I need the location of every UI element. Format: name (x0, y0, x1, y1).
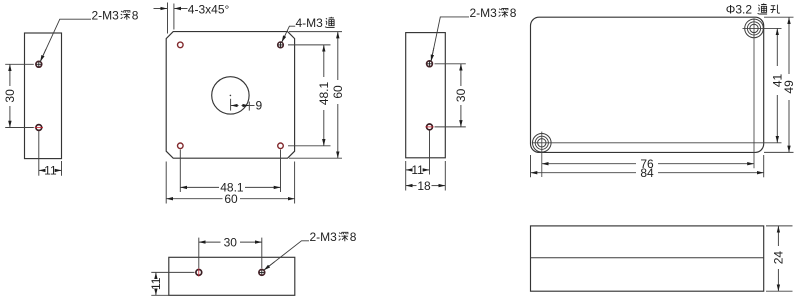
dimension 76 (view4 bottom) (542, 163, 754, 165)
dimension 11 (view1 bottom) (39, 131, 62, 176)
svg-text:30: 30 (224, 235, 238, 249)
dimension 30 (view6 top) (199, 238, 262, 269)
svg-text:60: 60 (331, 85, 345, 99)
svg-text:4-M3: 4-M3 (296, 16, 324, 30)
svg-text:84: 84 (640, 166, 654, 180)
svg-text:11: 11 (411, 163, 424, 177)
dimension 24 (view5 right) (766, 226, 793, 291)
dimension 41 (view4 right) (776, 28, 778, 142)
leader 2-M3 deep 8 (view6) (264, 241, 309, 270)
view6 hole left (M3) (196, 268, 202, 276)
dimension 48.1 (view2 bottom) (180, 150, 280, 193)
centerlines hole bottom-left (532, 132, 782, 177)
dimension 30 (view3 right) (435, 64, 466, 127)
dimension 11 (view3 bottom) (406, 131, 430, 191)
dimension 60 (view2 right) (289, 32, 342, 159)
view2 hole bottom-left (M3) (178, 143, 184, 149)
view6 hole right (M3, crossed) (259, 270, 265, 276)
leader 2-M3 deep 8 (view1) (40, 19, 91, 62)
label phi3.2 through-hole (726, 2, 780, 16)
view6 outline (169, 257, 295, 295)
label 4-M3tong (view2) (296, 16, 335, 30)
view1 plate outline (25, 33, 62, 159)
svg-text:49: 49 (782, 80, 796, 94)
svg-text:30: 30 (3, 89, 17, 103)
label 2-M3shen8 (view1) (92, 8, 139, 22)
view3 plate outline (406, 33, 446, 158)
label 2-M3shen8 (view3) (470, 6, 517, 20)
dimension 18 (view3 bottom) (406, 161, 446, 191)
svg-text:8: 8 (510, 6, 517, 20)
dimension 48.1 (view2 right) (288, 45, 331, 146)
view2 plate outline with chamfered corners (166, 32, 294, 159)
svg-text:9: 9 (256, 99, 263, 113)
view2 hole bottom-right (M3) (278, 143, 284, 149)
view2 hole top-left (M3) (178, 42, 184, 48)
svg-text:24: 24 (772, 251, 786, 265)
label 2-M3shen8 (view6) (310, 230, 357, 244)
dimension 30 (view1 left) (5, 64, 34, 127)
svg-text:18: 18 (417, 179, 431, 193)
view3 hole bottom (M3) (425, 124, 433, 130)
svg-text:30: 30 (454, 88, 468, 102)
leader 4-M3 through (view2) (282, 26, 296, 42)
svg-text:Φ3.2: Φ3.2 (726, 2, 753, 16)
view4 cover outline (rounded) (531, 17, 764, 152)
svg-text:60: 60 (224, 192, 238, 206)
radius dimension 9 (view2 center) (231, 99, 255, 111)
chamfer dimension 4-3x45 (154, 3, 188, 34)
view2 hole top-right (M3, crossed) (278, 42, 284, 48)
svg-text:8: 8 (132, 8, 139, 22)
dimension 11 (view6 left) (151, 272, 194, 295)
svg-text:11: 11 (149, 277, 163, 290)
leader 2-M3 deep 8 (view3) (431, 17, 469, 62)
view2 center bore circle (212, 77, 249, 114)
view5 outline (531, 226, 764, 291)
svg-text:2-M3: 2-M3 (310, 230, 338, 244)
svg-text:4-3x45°: 4-3x45° (188, 2, 230, 16)
view4 hole bottom-left (3.2 through) (533, 134, 552, 153)
view1 hole bottom (M3) (35, 125, 43, 131)
dimension 49 (view4 far right) (764, 17, 794, 152)
svg-text:2-M3: 2-M3 (470, 6, 498, 20)
centerlines hole top-right (743, 18, 782, 168)
view1 hole top (M3, crossed) (36, 61, 42, 67)
view3 hole top (M3, crossed) (427, 61, 433, 67)
view4 hole top-right (3.2 through) (745, 19, 764, 38)
svg-text:2-M3: 2-M3 (92, 8, 120, 22)
view5 step line (531, 257, 764, 259)
svg-text:11: 11 (44, 164, 57, 178)
dimension 84 (view4 bottom) (531, 155, 764, 177)
dimension 60 (view2 bottom) (166, 162, 294, 204)
svg-text:48.1: 48.1 (317, 81, 331, 105)
svg-text:8: 8 (350, 230, 357, 244)
